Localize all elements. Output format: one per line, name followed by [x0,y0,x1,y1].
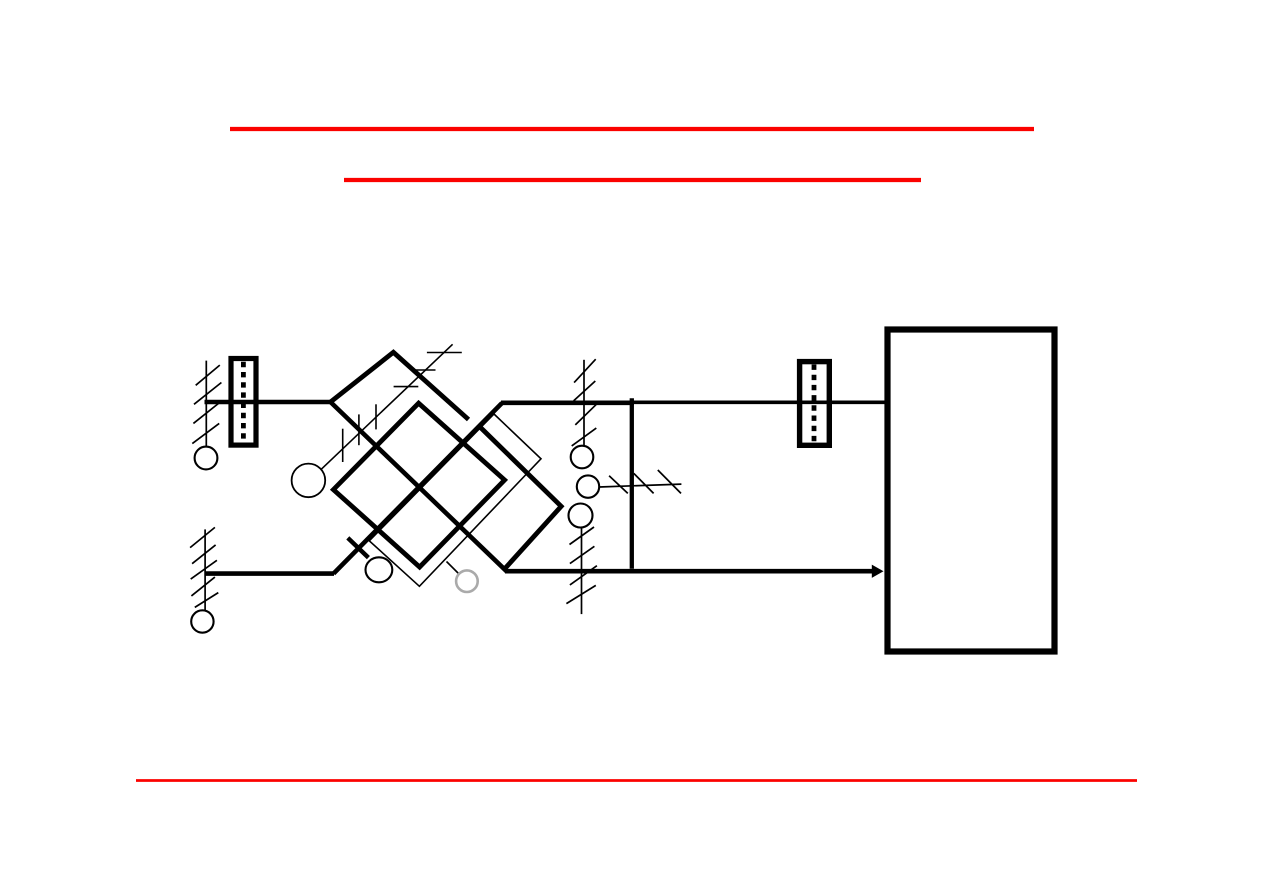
beam B1 (top-left input, crosses down to lower output with arrow) [205,402,874,571]
beamsplitter diamond D2 (central thick diamond) [333,403,504,567]
title underline 2 (red) [344,178,921,182]
node circle C2 (below mirror M2) [191,610,213,632]
thin rotated rectangle (glass plate outline) [369,414,541,586]
leader line with hatch ticks (node label left) [317,344,461,473]
node circle C3 (large, left leader) [292,464,326,498]
node circle C4 (below thick tick) [366,557,393,582]
mirror M1 (top left, hatched) [192,361,221,447]
beamsplitter path D1 (upper-left thick chevron) [331,352,469,419]
footer rule (red) [136,779,1137,782]
node circle C8 (gray) [456,570,478,592]
attenuator A1 (rect with dotted line, left) [231,359,256,446]
node circle C6 (middle, mirror M5) [577,475,599,497]
mirror M4 (bottom middle, hatched) [566,527,597,614]
arrowhead of beam B1 [872,565,884,578]
mirror M5 (horizontal, hatched, right of middle circle) [599,470,681,493]
beam B2 (bottom-left input, crosses up to upper output) [205,403,635,574]
beam B2 thin continuation to detector [634,400,885,404]
node circle C1 (below mirror M1) [195,447,218,470]
vertical connector between beams [630,398,634,569]
attenuator A2 (rect with dotted line, right) [800,362,830,446]
node circle C5 (below mirror M3) [571,446,594,469]
beamsplitter path D3 (right thick chevron) [480,427,562,570]
title underline 1 (red) [230,127,1034,131]
mirror M3 (top middle, hatched) [572,359,597,446]
detector box (right) [888,330,1055,652]
thick tick on lower beam diagonal [348,538,369,558]
leader to gray circle [447,562,459,574]
mirror M2 (bottom left, hatched) [190,527,218,611]
node circle C7 (above mirror M4) [569,504,593,528]
